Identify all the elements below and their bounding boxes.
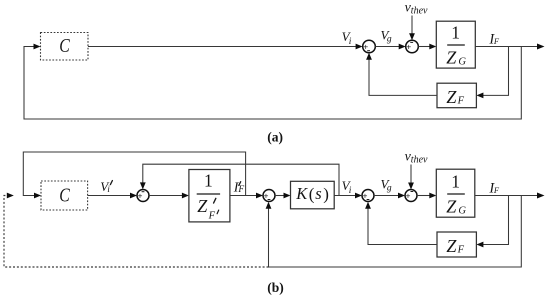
svg-text:i: i: [349, 37, 352, 47]
node label I_F (b): [488, 180, 500, 196]
node label V_i (a): [342, 29, 352, 47]
wire: dotted virtual feedback (b): [4, 196, 269, 268]
svg-text:F: F: [237, 185, 244, 195]
svg-text:1: 1: [204, 171, 213, 191]
svg-text:G: G: [458, 56, 466, 67]
summing junction S2a: [406, 40, 419, 53]
wire: plant output to right edge (a): [475, 46, 538, 48]
summing junction S1b: [137, 190, 149, 202]
svg-text:): ): [323, 185, 329, 204]
controller C (b): [41, 181, 88, 210]
svg-text:F: F: [208, 210, 216, 221]
arrowhead dotted virtual input (b): [7, 193, 14, 199]
arrowhead output right (a): [537, 44, 545, 50]
wire: S4b to plant box (b): [417, 195, 432, 197]
arrowhead into S1a: [356, 44, 363, 50]
svg-text:s: s: [315, 184, 321, 203]
arrowhead into 1/Z_G (b): [429, 193, 436, 199]
node label I_F (a): [488, 31, 500, 47]
arrowhead into C (b): [34, 193, 41, 199]
svg-text:thev: thev: [411, 155, 428, 166]
block 1/Z'_F' (b): [189, 170, 230, 222]
svg-text:(b): (b): [267, 280, 284, 295]
summing junction S2b: [263, 190, 275, 202]
arrowhead inner feedback into S1b top: [140, 182, 146, 189]
wire: inner feedback from V_i node back to S1b (b): [143, 164, 339, 195]
arrowhead bottom feedback into S2b: [266, 202, 272, 209]
summing junction S3b: [362, 190, 374, 202]
svg-text:Z: Z: [446, 87, 457, 107]
svg-text:F: F: [493, 36, 500, 46]
svg-text:Z: Z: [446, 236, 457, 256]
wire: v_thev drop into S2a: [411, 16, 413, 36]
svg-text:Z: Z: [446, 48, 457, 68]
arrowhead into S4b: [398, 193, 405, 199]
arrowhead into S2a: [399, 44, 406, 50]
svg-text:(a): (a): [267, 129, 283, 144]
summing junction S1a: [363, 40, 376, 53]
block Z_F (b): [437, 232, 476, 257]
wire: branch down to Z_F input (a): [480, 47, 509, 96]
node label V_i (b): [342, 178, 352, 196]
wire: v_thev drop into S4b: [410, 165, 412, 185]
arrowhead v_thev into S4b: [408, 183, 414, 190]
wire: outer feedback bottom and left riser (a): [24, 47, 521, 120]
wire: bottom feedback riser into S2b (solid part): [269, 196, 522, 268]
wire: 1/Z'_F' output to S2b: [230, 195, 258, 197]
wire: S1b to 1/Z'_F' box: [149, 195, 185, 197]
node label V_i' (b): [100, 179, 112, 195]
svg-text:g: g: [387, 184, 392, 194]
arrowhead into S3b: [355, 193, 362, 199]
arrowhead v_thev into S2a: [409, 33, 415, 40]
svg-text:g: g: [387, 35, 392, 45]
svg-text:Z: Z: [197, 196, 208, 216]
svg-text:C: C: [59, 35, 70, 57]
wire: Z_F output back to S1a: [369, 57, 437, 95]
block Z_F (a): [437, 83, 476, 108]
arrowhead into K(s): [284, 193, 291, 199]
wire: S2a to plant box (a): [418, 46, 432, 48]
svg-text:+: +: [363, 42, 368, 52]
wire: S3b to S4b: [374, 195, 400, 197]
arrowhead into 1/Z_G (a): [429, 44, 436, 50]
block 1/Z_G (a): [436, 21, 475, 68]
node label V_g (b): [381, 176, 392, 193]
arrowhead into C (a): [34, 44, 41, 50]
wire: C output to S1b: [88, 195, 132, 197]
svg-text:+: +: [406, 42, 411, 52]
arrowhead into Z_F right side (a): [476, 93, 483, 99]
source label v_thev (a): [405, 1, 428, 17]
source label v_thev (b): [405, 150, 428, 166]
wire: S1a to S2a: [375, 46, 400, 48]
svg-text:+: +: [406, 191, 411, 201]
svg-text:K: K: [295, 184, 308, 203]
wire: K(s) output to S3b: [334, 195, 356, 197]
svg-text:Z: Z: [446, 197, 457, 217]
svg-text:G: G: [458, 205, 466, 216]
wire: C output to summing junction S1a: [88, 46, 357, 48]
arrowhead Z_F feedback into S1a bottom: [366, 53, 372, 60]
svg-text:1: 1: [451, 22, 460, 42]
svg-text:(: (: [309, 185, 315, 204]
arrowhead into S2b: [256, 193, 263, 199]
controller C (a): [41, 33, 89, 61]
summing junction S4b: [405, 190, 417, 202]
svg-text:C: C: [59, 184, 70, 206]
svg-text:1: 1: [451, 171, 460, 191]
wire: branch down to Z_F input (b): [480, 196, 509, 245]
node label I'_F (b): [233, 180, 245, 195]
svg-text:F: F: [457, 245, 465, 256]
block 1/Z_G (b): [436, 169, 475, 217]
block K(s) (b): [291, 181, 335, 209]
wire: Z_F output back to S3b (b): [368, 206, 437, 245]
svg-text:thev: thev: [411, 6, 428, 17]
arrowhead into Z_F right side (b): [476, 242, 483, 248]
wire: S2b to K(s): [275, 195, 286, 197]
arrowhead into S1b: [130, 193, 137, 199]
svg-text:F: F: [457, 96, 465, 107]
wire: plant output to right edge (b): [475, 195, 539, 197]
svg-text:i: i: [349, 186, 352, 196]
arrowhead into 1/Z'_F': [182, 193, 189, 199]
wire: outer feedback from I'_F node to C input (b): [23, 152, 245, 196]
arrowhead Z_F feedback into S3b bottom: [365, 202, 371, 209]
svg-text:F: F: [493, 185, 500, 195]
node label V_g (a): [381, 27, 392, 44]
svg-text:i: i: [107, 185, 110, 195]
arrowhead output right (b): [537, 193, 545, 199]
